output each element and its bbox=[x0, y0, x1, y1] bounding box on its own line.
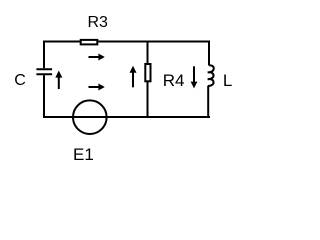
arrow: current arrow up left of R4 bbox=[130, 66, 137, 88]
svg-text:C: C bbox=[14, 72, 26, 89]
capacitor C bbox=[36, 69, 52, 74]
svg-text:R3: R3 bbox=[87, 14, 108, 31]
wire: top-right vertical from top rail down to inductor L bbox=[208, 41, 210, 66]
resistor R4 bbox=[145, 64, 150, 81]
svg-text:E1: E1 bbox=[73, 145, 94, 164]
arrow: current arrow up beside capacitor bbox=[55, 71, 62, 90]
resistor R3 bbox=[81, 40, 98, 45]
wire: top-left from capacitor C up and right to R3 bbox=[44, 42, 81, 69]
svg-text:L: L bbox=[223, 71, 232, 90]
voltage source E1 bbox=[73, 100, 107, 134]
arrow: current arrow right (lower) bbox=[89, 84, 105, 91]
wire: inductor L bottom down to bottom-right corner bbox=[207, 86, 209, 117]
wire: R4 branch from top rail down to R4 bbox=[147, 43, 149, 65]
node: T-junction of R4 branch with top rail bbox=[147, 42, 149, 45]
wire: bottom rail bbox=[43, 116, 210, 118]
svg-text:R4: R4 bbox=[163, 71, 185, 90]
arrow: current arrow down right of R4 bbox=[191, 66, 198, 88]
wire: R4 bottom down to bottom rail bbox=[147, 81, 149, 117]
wire: capacitor C bottom down to bottom rail bbox=[43, 75, 45, 117]
wire: top rail from R3 right to top-right corner bbox=[98, 41, 210, 43]
inductor L bbox=[208, 65, 214, 86]
arrow: current arrow right (upper) bbox=[89, 54, 105, 61]
